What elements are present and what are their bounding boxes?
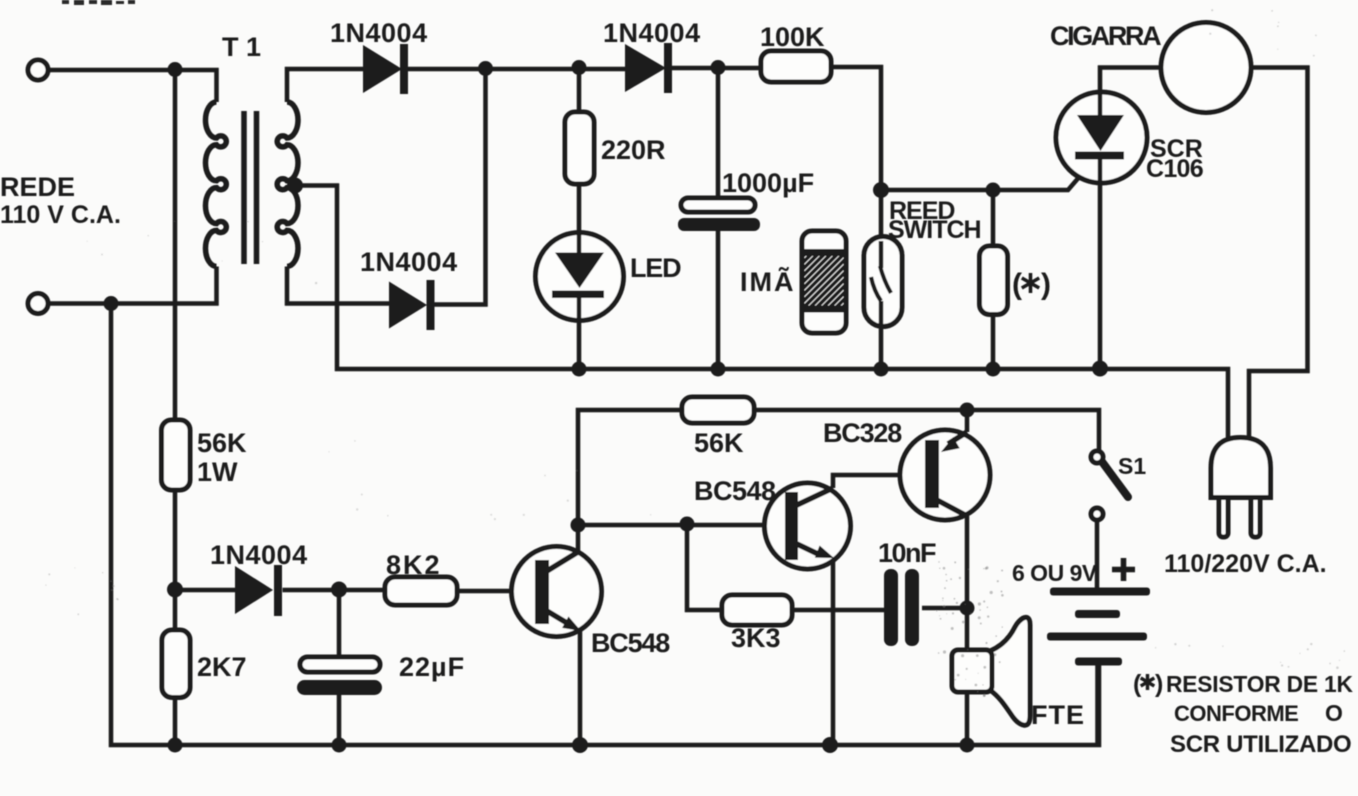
svg-text:56K: 56K <box>197 428 247 458</box>
svg-text:C106: C106 <box>1146 155 1203 183</box>
svg-text:1N4004: 1N4004 <box>360 247 458 277</box>
svg-text:10nF: 10nF <box>878 538 936 568</box>
svg-text:1N4004: 1N4004 <box>210 540 308 570</box>
svg-text:BC328: BC328 <box>823 418 902 448</box>
svg-text:(: ( <box>1133 670 1142 698</box>
svg-text:RESISTOR DE 1K: RESISTOR DE 1K <box>1166 671 1354 697</box>
svg-text:2K7: 2K7 <box>197 652 247 682</box>
svg-text:IMÃ: IMÃ <box>740 266 796 297</box>
svg-text:1N4004: 1N4004 <box>330 18 428 48</box>
svg-text:100K: 100K <box>760 22 825 52</box>
svg-text:BC548: BC548 <box>694 476 776 506</box>
svg-text:110 V C.A.: 110 V C.A. <box>0 201 121 229</box>
svg-text:220R: 220R <box>601 135 666 165</box>
svg-text:O: O <box>1325 700 1343 726</box>
svg-text:1000µF: 1000µF <box>722 168 814 198</box>
svg-text:SWITCH: SWITCH <box>888 216 981 244</box>
svg-text:110/220V C.A.: 110/220V C.A. <box>1164 550 1327 578</box>
svg-text:): ) <box>1041 268 1051 301</box>
svg-text:(: ( <box>1012 268 1022 301</box>
svg-text:): ) <box>1155 670 1163 698</box>
svg-text:T 1: T 1 <box>222 32 261 62</box>
svg-text:1W: 1W <box>197 457 238 487</box>
svg-text:56K: 56K <box>694 428 744 458</box>
svg-text:1N4004: 1N4004 <box>603 18 701 48</box>
svg-text:6 OU 9V: 6 OU 9V <box>1012 560 1098 586</box>
svg-text:FTE: FTE <box>1031 700 1085 730</box>
svg-text:LED: LED <box>630 253 681 283</box>
svg-text:22µF: 22µF <box>399 652 465 682</box>
svg-text:8K2: 8K2 <box>386 550 442 580</box>
svg-text:CIGARRA: CIGARRA <box>1050 21 1161 51</box>
svg-text:SCR UTILIZADO: SCR UTILIZADO <box>1170 731 1351 758</box>
svg-text:BC548: BC548 <box>591 628 670 658</box>
svg-text:CONFORME: CONFORME <box>1174 701 1298 726</box>
svg-text:REDE: REDE <box>0 172 75 202</box>
svg-text:3K3: 3K3 <box>731 623 781 653</box>
svg-text:S1: S1 <box>1118 453 1146 479</box>
